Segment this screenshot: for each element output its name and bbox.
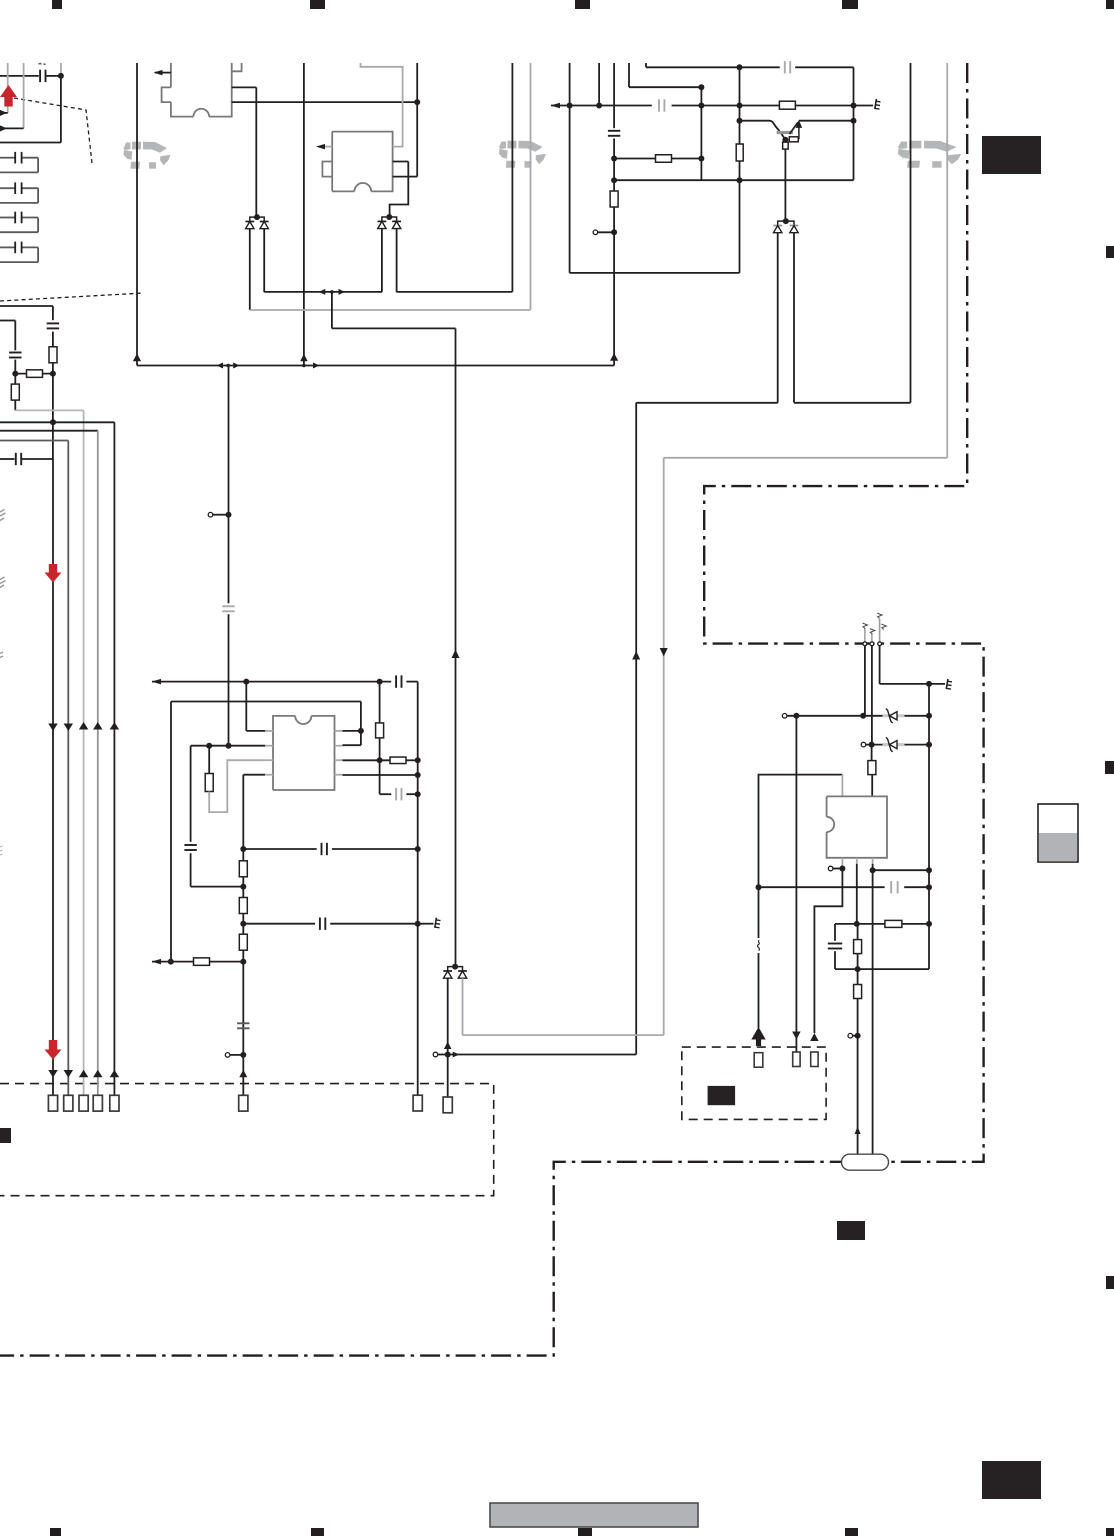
wire x190.6 [190, 746, 192, 842]
node dots y744.6 [869, 742, 875, 748]
resistor R-e [736, 144, 743, 161]
color patch black bottom right [982, 1461, 1041, 1499]
terminal y1054.5 [438, 1054, 448, 1056]
ic U4 outline [827, 796, 887, 857]
wire U4 pin x872.6 [872, 864, 874, 870]
gray color bar bottom [490, 1503, 698, 1527]
resistor R-a [52, 347, 54, 363]
wire x929 [928, 684, 930, 969]
capacitor C-a [39, 70, 41, 82]
arrow x243.3 [239, 1070, 247, 1078]
leader line left middle [0, 293, 144, 301]
board outline dash-dot [0, 63, 984, 1356]
connector pin x243 [239, 1095, 248, 1111]
red arrow down mid-left [49, 564, 57, 574]
node dots y373.6 [12, 371, 18, 377]
wire U4 pin x842 path [814, 869, 842, 1034]
wire D2 right down [396, 229, 398, 293]
ic U3 pins [265, 730, 273, 732]
node dots x853.5 [851, 118, 857, 124]
gray wire y457.8 [664, 457, 948, 459]
pill connector [842, 1154, 889, 1170]
node dots y870.2 [870, 867, 876, 873]
node dot x360.9 [358, 728, 364, 734]
connector pin x447.7 [443, 1097, 452, 1113]
capacitor C-o [890, 881, 892, 893]
node dots y681.6 [243, 679, 249, 685]
node dots y715.8 [793, 713, 799, 719]
wire y292 left seg [264, 291, 382, 293]
diode pair D4 [778, 221, 794, 225]
node dots y961.6 [168, 959, 174, 965]
node dot x701.4 y87.2 [698, 84, 704, 90]
wire x417 to U2 tab [416, 102, 418, 177]
wire U1 pin y102 [232, 101, 418, 103]
capacitor loop 4 [0, 246, 15, 248]
registration mark top 1 [52, 0, 62, 9]
wire Q1 emitter down [784, 149, 786, 221]
terminal x830.6 [833, 868, 842, 870]
wire x871.6 down [871, 646, 873, 745]
flow arrows lower band [48, 1070, 58, 1078]
arrow above x447.7 [444, 1042, 452, 1050]
wire y158.5 [614, 158, 701, 160]
wire D1 right down [263, 229, 265, 293]
arrow x636.2 [632, 651, 640, 660]
node dot y180.2 [611, 177, 617, 183]
node dots x739.5 [737, 118, 743, 124]
wire x835 cap branch [834, 924, 836, 941]
connector pins right dashed box [754, 1053, 763, 1068]
wire x171 [170, 702, 172, 962]
capacitor loop 1 [0, 157, 15, 159]
terminal y232.3 [598, 231, 614, 233]
wire row y887.2 [759, 886, 885, 888]
black patch left edge [0, 1128, 11, 1143]
black patch in right dashed box [708, 1086, 736, 1105]
wire to x636 [448, 1054, 637, 1056]
ic U1 outline [170, 63, 172, 87]
node dots y887.2 [756, 884, 762, 890]
registration mark bottom 1 [50, 1528, 61, 1536]
node dot x60.9 [58, 73, 64, 79]
capacitor C-m [319, 918, 321, 930]
gray wire D3 right [462, 978, 464, 1035]
ic U1 left tab [162, 87, 171, 102]
wire U2 tab to diodes [390, 162, 409, 218]
wire row y794.2 [379, 760, 381, 794]
red arrow up (top left) [0, 85, 17, 97]
dashed connector box bottom left [0, 1084, 494, 1196]
wire x360.9 [360, 702, 362, 746]
registration mark bottom 2 [311, 1528, 324, 1536]
capacitor C-e [608, 130, 620, 132]
wire row y923.7 [243, 923, 315, 925]
registration mark bottom 4 [845, 1528, 858, 1536]
diode pair D3 [448, 967, 463, 971]
resistor R-c [14, 374, 16, 385]
wire y67.3 [645, 63, 647, 67]
resistor R-d [610, 191, 618, 207]
ic U1 top right tab [232, 63, 242, 71]
registration mark top 3 [575, 0, 590, 9]
resistor R-l [239, 861, 247, 877]
wire D4 right down [793, 233, 795, 403]
capacitor C-g [784, 61, 786, 73]
gray wire x530.5 [530, 63, 532, 310]
clipped mark left 4 [0, 652, 3, 654]
gray Z wire [209, 760, 265, 812]
wire x796.4 down [795, 716, 797, 1052]
wire x599.1 [598, 63, 600, 106]
wire x569.6 [569, 63, 571, 273]
registration mark top right corner [1106, 0, 1114, 9]
resistor R-o [194, 958, 210, 966]
wire row y760.3 [343, 759, 391, 761]
wire row y961.6 [152, 961, 243, 963]
ic U3 outline [273, 716, 295, 790]
resistor R-h [783, 142, 789, 149]
resistor R-n [239, 934, 247, 950]
wire x629 [628, 63, 630, 87]
node dot x53 y422.3 [50, 419, 56, 425]
wire x331.9 down [331, 292, 333, 329]
registration mark bottom 3 [578, 1528, 592, 1536]
node dots y760.3 [377, 757, 383, 763]
node dots y158.5 [611, 156, 617, 162]
capacitor C-n [237, 1022, 249, 1024]
capacitor loop 3 [0, 217, 15, 219]
resistor R-j [376, 723, 384, 738]
wire y180.2 [614, 179, 853, 181]
node dot x739.5 y67.3 [737, 64, 743, 70]
bus arrow x614 [610, 353, 618, 361]
terminal y514.7 [213, 514, 229, 516]
ic U4 bottom pins [841, 858, 843, 869]
wire gray stub x23.6 [23, 63, 25, 128]
wire row y701.5 [171, 701, 361, 703]
ic U2 outline [332, 132, 392, 192]
wire U3 pin4 left [243, 774, 265, 776]
arrow into page y112.9 [4, 112, 8, 114]
big arrow x758.5 [756, 1038, 761, 1046]
capacitor C-i [222, 605, 234, 607]
capacitor C-c [47, 322, 59, 324]
wire D4 left down [777, 233, 779, 403]
wire x872 to U4 [871, 745, 873, 761]
capacitor loop 2 [0, 187, 15, 189]
rotation mark right [898, 142, 907, 150]
wire gray stub x60.9 [60, 63, 62, 76]
terminal x863.5 [861, 742, 866, 747]
zener ZD2 [883, 743, 905, 746]
wire x512.4 [511, 63, 513, 292]
wire D3 left down [447, 978, 449, 1097]
junction marker y292 [319, 289, 326, 295]
wire x52.9 to bus [52, 363, 54, 459]
wire y402.8 left seg [636, 402, 778, 404]
gray wire into U2 [361, 63, 403, 147]
resistor R-q [885, 920, 902, 927]
wire y105.5 row [551, 105, 652, 107]
flow arrows upper band [48, 724, 58, 732]
resistor R-r [857, 924, 859, 1155]
color patch black top right [982, 136, 1041, 174]
wire D2 left down [381, 229, 383, 293]
wire y320.5 [0, 320, 15, 322]
wire y292 right seg [397, 291, 513, 293]
arrow x455.5 [452, 650, 460, 659]
capacitor C-d [15, 453, 17, 465]
resistor R-g (transistor bias) [779, 101, 795, 109]
rotation mark middle [499, 142, 506, 150]
resistor R-m [239, 898, 247, 914]
wire row y681.6 [152, 681, 391, 683]
node dot y886.6 [240, 884, 246, 890]
wire x636.2 [635, 403, 637, 1055]
terminal x784.6 [782, 714, 787, 719]
resistor R-i [208, 746, 210, 774]
ground G2 [435, 918, 437, 928]
gray wire to x83.6 [15, 409, 83, 411]
capacitor C-f [658, 99, 660, 111]
node dots y923.7 [240, 921, 246, 927]
wire x53 down [52, 459, 54, 1096]
node dots y923.9 [854, 921, 860, 927]
diode pair D2 [382, 217, 397, 221]
registration mark bottom right corner [1106, 1528, 1114, 1536]
resistor R-k [390, 757, 406, 764]
wire row y775 [343, 774, 418, 776]
red arrow down lower-left [49, 1040, 57, 1050]
wire row y744.6 [866, 744, 885, 746]
node dots y849 [240, 846, 246, 852]
wire U4 pin x856.8 [856, 864, 858, 924]
clipped ground left 2 [0, 577, 5, 580]
registration mark top 2 [310, 0, 325, 9]
terminal y1054.9 [230, 1054, 243, 1056]
resistor R-b horizontal [15, 373, 53, 375]
capacitor C-p [828, 943, 842, 945]
dashed connector box right [682, 1047, 826, 1119]
gray wire x663.7 [663, 458, 665, 1035]
clipped ground left 1 [0, 510, 5, 513]
wire x872.6 long [872, 870, 874, 1154]
diode pair D1 [250, 217, 264, 221]
capacitor C-b [9, 352, 21, 354]
clipped marks left 3 [0, 846, 3, 847]
gray wire x947.2 [946, 63, 948, 458]
tiny dashes above C-a [39, 63, 42, 65]
rotation mark left [124, 143, 131, 151]
wire row y923.9 [835, 923, 929, 925]
wire x739.5 [739, 67, 741, 273]
transistor Q1 [740, 120, 770, 122]
resistor R-s [854, 985, 862, 999]
resistor R-f [656, 155, 672, 163]
ground G3 [946, 679, 948, 689]
zigzag on x758.5 [752, 938, 765, 953]
right edge mark 3 [1106, 1276, 1114, 1289]
wire y402.8 right seg [794, 402, 911, 404]
capacitor C-j [184, 844, 196, 846]
capacitor C-h [395, 675, 397, 687]
resistor R-p [868, 761, 876, 775]
wire x379.6 [379, 682, 381, 724]
arrow into page y128.4 [4, 127, 24, 129]
arrow small x857.6 [855, 1127, 861, 1135]
bus wire y459 with cap [0, 458, 15, 460]
node dot x929 y683.9 [926, 681, 932, 687]
node dots y745.7 [206, 743, 212, 749]
bus wire y422.3 [0, 421, 114, 423]
bus wire y430.7 [0, 430, 98, 432]
connector pin x417.7 [413, 1095, 422, 1111]
capacitor C-k [395, 788, 397, 800]
wire row y715.8 [787, 715, 885, 717]
bus marker x303.9 [300, 354, 308, 362]
bus arrow x137 [133, 354, 141, 362]
registration mark top 4 [842, 0, 858, 9]
ground G1 [875, 99, 877, 109]
wire x863.2 down [864, 646, 866, 716]
wire x137 [136, 63, 138, 366]
terminal y1035.7 [853, 1035, 858, 1037]
wire x52.9 upper [52, 306, 54, 320]
wire x455.5 [455, 328, 457, 966]
wire x303.9 [303, 63, 305, 366]
arrow x796.4 [792, 1032, 801, 1040]
wire y306 [0, 305, 53, 307]
ic U2 right tab [393, 162, 409, 177]
main bus y365.5 [137, 365, 614, 367]
bus wire y440.5 [0, 440, 68, 442]
wire x614.1 [613, 63, 615, 128]
wire y272.9 [570, 272, 740, 274]
gray wire y310 [250, 309, 531, 311]
wire x758.5 loop [759, 775, 843, 1028]
wire x417.7 [417, 682, 419, 1096]
wire D1 left down [249, 229, 251, 310]
node dot y794.2 [415, 791, 421, 797]
wire top-left cap line y76 [0, 75, 39, 77]
capacitor C-l [320, 843, 322, 855]
bus marker x228 [217, 363, 224, 369]
gray stub U4 top [841, 775, 843, 797]
connector stubs on dash-dot [864, 628, 866, 642]
ic U2 pin arrow [318, 146, 332, 148]
wire x15.3 [14, 321, 16, 351]
ic U1 pin arrow [155, 72, 171, 74]
right edge mark 1 [1106, 246, 1114, 258]
wire U1 pin right to diodes [232, 86, 257, 88]
gray arrow x663.7 [660, 648, 668, 657]
wire x910.5 [910, 63, 912, 403]
wire x853.5 [853, 67, 855, 180]
leader line from red arrow 1 [14, 98, 92, 163]
connector pins bottom left [48, 1095, 57, 1111]
wire x60.9 down [60, 76, 62, 143]
black patch near pill [837, 1221, 865, 1240]
ic U2 left tab [322, 162, 332, 177]
wire x246.3 [245, 682, 247, 731]
zener ZD1 [883, 714, 905, 717]
wire gray stub x7.7 [7, 63, 9, 113]
node dot x417 y102 [414, 99, 420, 105]
wire row y969.1 [835, 968, 929, 970]
color patch black/white right [1038, 804, 1078, 862]
wire row y745.7 [191, 745, 265, 747]
node dot y969.1 [855, 966, 861, 972]
wire row y849 [243, 848, 316, 850]
wire x417 top [416, 63, 418, 102]
wire x228.5 (from bus) [228, 366, 230, 604]
arrow x815.1 [810, 1033, 819, 1041]
right edge mark 2 [1105, 761, 1114, 774]
node dots row 105.5 [567, 103, 573, 109]
wire x701.4 [700, 87, 702, 180]
wire x880 down [879, 646, 881, 684]
